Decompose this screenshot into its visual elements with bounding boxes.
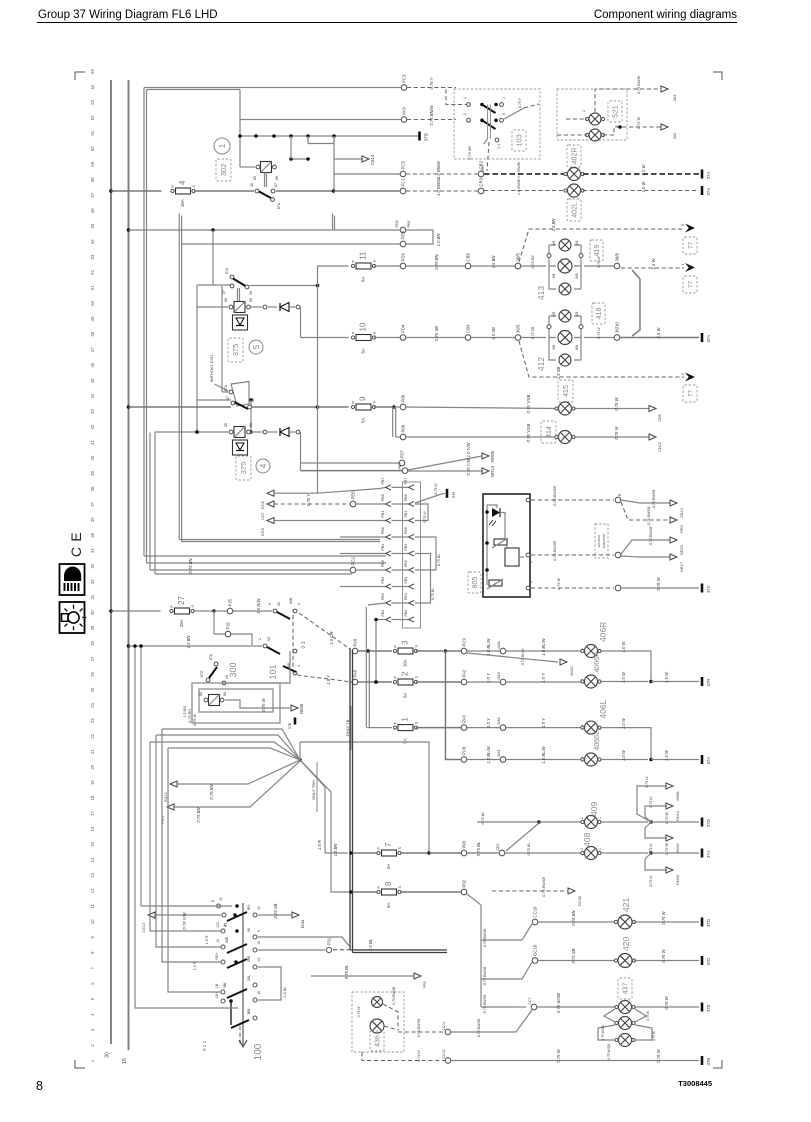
svg-text:1.5 R: 1.5 R bbox=[205, 935, 209, 944]
svg-text:0 1: 0 1 bbox=[301, 641, 307, 648]
svg-text:1.0 R: 1.0 R bbox=[193, 961, 197, 970]
terminal CC7 bbox=[531, 1004, 537, 1010]
svg-text:55: 55 bbox=[90, 223, 95, 228]
svg-text:63: 63 bbox=[90, 99, 95, 104]
svg-text:C: C bbox=[68, 547, 84, 557]
svg-text:CR3: CR3 bbox=[479, 177, 484, 186]
unit 805 inner block bbox=[505, 548, 519, 566]
svg-text:0.75 W: 0.75 W bbox=[645, 776, 649, 788]
fuse 4 10A bbox=[171, 180, 196, 207]
resistor R1 bbox=[494, 539, 507, 545]
wire 412 out bbox=[584, 337, 614, 339]
svg-text:37A: 37A bbox=[706, 757, 711, 765]
svg-text:CC01: CC01 bbox=[442, 1022, 446, 1031]
svg-text:CG7: CG7 bbox=[261, 512, 265, 520]
svg-text:1.5 R: 1.5 R bbox=[317, 840, 322, 850]
svg-text:0.75 BN/SB: 0.75 BN/SB bbox=[553, 541, 557, 561]
without DRL leader bbox=[215, 384, 229, 391]
wire loop horizontal y574 bbox=[155, 573, 352, 575]
lamp 402R label bbox=[567, 145, 581, 167]
svg-text:1.0 W: 1.0 W bbox=[621, 640, 626, 652]
switch 101 travel dashes bbox=[292, 615, 294, 668]
svg-text:16: 16 bbox=[90, 826, 95, 831]
wire 0.75 Y dashed bbox=[407, 87, 456, 89]
lamp 414 bbox=[555, 431, 575, 444]
wire relay 375-5 output bbox=[250, 285, 318, 287]
svg-text:86: 86 bbox=[224, 298, 228, 302]
lamp 436a bbox=[372, 997, 383, 1008]
wire 0.75 SB bbox=[538, 960, 616, 962]
wire loop vertical D bbox=[181, 216, 183, 542]
wire dashed 1.5 SB to connector 77-2 bbox=[519, 341, 684, 377]
wires to NR23 NR17 bbox=[621, 540, 670, 554]
svg-text:1: 1 bbox=[502, 97, 506, 99]
svg-text:0.75 W: 0.75 W bbox=[193, 714, 197, 726]
wire CE2 diagonal bbox=[506, 823, 539, 851]
fuse 1 5A bbox=[393, 717, 418, 744]
wire dashed 1.5 BN to connector 77-6 bbox=[519, 229, 684, 262]
svg-text:0.75 BN/SB: 0.75 BN/SB bbox=[483, 966, 487, 985]
wire jog 36/8 to 36/10 bbox=[632, 270, 640, 336]
svg-text:8: 8 bbox=[36, 1079, 43, 1093]
svg-text:WITHOUT: WITHOUT bbox=[597, 534, 601, 547]
svg-text:39: 39 bbox=[90, 471, 95, 476]
wire fan ray 3 bbox=[150, 742, 300, 760]
svg-text:DN14: DN14 bbox=[676, 811, 680, 821]
svg-text:1.5 BN: 1.5 BN bbox=[333, 843, 338, 857]
svg-text:36: 36 bbox=[90, 517, 95, 522]
svg-text:0.75 W: 0.75 W bbox=[664, 995, 669, 1009]
wire loop vertical B bbox=[146, 90, 148, 564]
svg-text:PD4: PD4 bbox=[401, 324, 406, 333]
svg-text:OA9: OA9 bbox=[497, 672, 501, 679]
svg-text:38: 38 bbox=[90, 486, 95, 491]
svg-text:CG13: CG13 bbox=[142, 923, 146, 933]
svg-text:0.75 W: 0.75 W bbox=[656, 1048, 661, 1062]
connector CE13 bbox=[670, 500, 677, 506]
svg-text:46: 46 bbox=[90, 362, 95, 367]
relay 375-4 suppression diode bbox=[233, 440, 248, 455]
svg-text:1: 1 bbox=[463, 97, 467, 99]
svg-text:1.5 W: 1.5 W bbox=[651, 257, 656, 269]
svg-text:3BL: 3BL bbox=[223, 982, 227, 988]
wire 1.5 OR dashed bbox=[299, 613, 350, 649]
svg-text:0.75 BN: 0.75 BN bbox=[531, 255, 535, 268]
svg-text:65: 65 bbox=[90, 69, 95, 74]
terminal CC18 bbox=[532, 944, 538, 963]
relay 300 blade bbox=[209, 667, 217, 678]
svg-text:PC3: PC3 bbox=[402, 74, 407, 83]
terminal 36/8 bbox=[614, 253, 620, 269]
svg-text:1.0 BN/W: 1.0 BN/W bbox=[436, 160, 441, 179]
without DRL contact shape bbox=[231, 382, 249, 407]
svg-text:375: 375 bbox=[239, 462, 248, 475]
relay 302 pin 85 bbox=[256, 165, 260, 169]
svg-text:28: 28 bbox=[90, 641, 95, 646]
connector 77 label b bbox=[683, 276, 697, 293]
control unit 805 label bbox=[468, 572, 481, 593]
svg-text:0.75 W: 0.75 W bbox=[637, 117, 641, 129]
terminal 37A row 408 bbox=[702, 849, 711, 859]
wire fan ray 1 bbox=[162, 729, 300, 760]
wire 36/3 to 412 bbox=[521, 337, 546, 339]
svg-text:1.0 Y: 1.0 Y bbox=[486, 672, 491, 683]
wire dashed 0.75 W to X02 bbox=[603, 127, 661, 135]
svg-text:1.0 BL/W: 1.0 BL/W bbox=[486, 637, 491, 655]
svg-text:1: 1 bbox=[297, 665, 301, 667]
junction bus 30 row 27 bbox=[109, 609, 113, 613]
svg-text:12: 12 bbox=[90, 888, 95, 893]
wire fuse27 feed bbox=[111, 610, 161, 612]
double drop x333 bbox=[332, 214, 334, 230]
relay 300 contact 30 bbox=[222, 681, 226, 685]
wire loop vertical x155 bbox=[154, 432, 156, 574]
svg-text:5A: 5A bbox=[361, 277, 366, 282]
wire PA9 to fuse2 bbox=[358, 681, 392, 683]
branch to DN03 bbox=[645, 853, 666, 870]
relay 300 coil bbox=[209, 695, 220, 706]
relay 302 contact 30 bbox=[255, 189, 259, 193]
junction PJ5 bbox=[212, 609, 216, 613]
wire 409 out bbox=[600, 821, 648, 823]
svg-text:NR23: NR23 bbox=[680, 545, 684, 555]
wire dashed 1.5 W to connector 77-1 bbox=[621, 267, 684, 269]
wire 1.0 Y bbox=[467, 681, 500, 683]
lamp 409 bbox=[581, 816, 601, 829]
switch 100 contact row 13 bbox=[221, 945, 225, 949]
wire row 57 left bbox=[111, 190, 162, 192]
fuse 8 5A bbox=[377, 881, 402, 908]
switch 101 contact S6 bbox=[263, 644, 267, 648]
svg-text:OA6: OA6 bbox=[497, 717, 501, 724]
svg-text:0.75 W/SB: 0.75 W/SB bbox=[601, 1025, 605, 1041]
relay 375-4 pin 85 bbox=[229, 430, 233, 434]
svg-text:X03: X03 bbox=[673, 95, 677, 102]
svg-text:300: 300 bbox=[228, 662, 238, 677]
lamp cluster 413 bbox=[547, 245, 583, 289]
svg-text:PB9: PB9 bbox=[381, 577, 385, 584]
icon headlamp low beam bbox=[60, 564, 85, 595]
svg-text:CC7: CC7 bbox=[528, 997, 532, 1004]
svg-text:418: 418 bbox=[596, 308, 603, 320]
terminal CB5 bbox=[465, 253, 471, 269]
relay 375-5 suppression diode bbox=[233, 315, 248, 330]
svg-text:85: 85 bbox=[224, 423, 228, 427]
svg-text:B/B: B/B bbox=[575, 345, 579, 350]
wire loop horizontal D bbox=[182, 541, 380, 543]
wire loop vertical x141 bbox=[140, 646, 142, 906]
svg-text:33: 33 bbox=[90, 563, 95, 568]
junction bus 15 row 55 bbox=[127, 228, 131, 232]
wire 402L feed dashed bbox=[484, 190, 566, 192]
svg-text:2: 2 bbox=[580, 817, 584, 819]
svg-text:2.5 W: 2.5 W bbox=[656, 326, 661, 339]
terminal PC8 bbox=[461, 746, 467, 762]
terminal P02 bbox=[461, 879, 467, 895]
svg-text:1.5 SB: 1.5 SB bbox=[556, 367, 561, 380]
terminal 37A row 412 bbox=[702, 333, 711, 343]
relay 375-5 contact 87A bbox=[230, 275, 234, 279]
control unit 805 box bbox=[483, 494, 530, 597]
lamp 415 bbox=[555, 402, 575, 415]
lamp 402L bbox=[564, 184, 584, 197]
relay 375-5 diode wires bbox=[251, 306, 262, 308]
lamp 436b bbox=[370, 1019, 384, 1033]
svg-text:62: 62 bbox=[90, 115, 95, 120]
wire loop horizontal C bbox=[179, 539, 380, 541]
wire S6 to bus bbox=[258, 937, 349, 946]
svg-text:OA1: OA1 bbox=[497, 749, 501, 756]
lamp cluster 406R bbox=[581, 645, 601, 658]
wire loop to fuse7 out bbox=[300, 742, 429, 853]
svg-text:0 1 2: 0 1 2 bbox=[202, 1041, 207, 1051]
wire dashed 436 to C02 bbox=[362, 1052, 445, 1061]
junction bus 15 row S6 bbox=[127, 644, 131, 648]
svg-text:1.0 Y: 1.0 Y bbox=[541, 672, 546, 683]
svg-text:0.75 BN/W: 0.75 BN/W bbox=[637, 75, 641, 94]
connector CG7 bbox=[267, 501, 274, 507]
svg-text:302: 302 bbox=[219, 164, 228, 177]
switch 101 contact S6B-3 bbox=[293, 609, 297, 613]
branch to DN14 bbox=[645, 806, 666, 822]
svg-text:2: 2 bbox=[529, 561, 533, 563]
svg-text:27: 27 bbox=[177, 596, 186, 605]
svg-text:18: 18 bbox=[90, 795, 95, 800]
wire U jog bbox=[308, 136, 334, 144]
lamp 414 label bbox=[541, 421, 556, 443]
svg-text:1.0 BN: 1.0 BN bbox=[436, 233, 441, 247]
svg-text:406R: 406R bbox=[598, 622, 608, 642]
svg-text:1.5 R/W: 1.5 R/W bbox=[256, 597, 261, 613]
svg-text:0.75 BN/SB: 0.75 BN/SB bbox=[417, 1018, 421, 1037]
svg-text:64: 64 bbox=[90, 84, 95, 89]
svg-text:14: 14 bbox=[257, 958, 261, 962]
wire row 61 to PA3 bbox=[240, 119, 401, 121]
svg-text:50: 50 bbox=[90, 300, 95, 305]
wire 1.5 BN bbox=[471, 265, 515, 267]
connector CN5 bbox=[649, 406, 656, 412]
svg-text:30: 30 bbox=[90, 610, 95, 615]
connector PB pin columns bbox=[381, 478, 414, 622]
svg-text:2: 2 bbox=[582, 110, 586, 112]
terminal PJ5 bbox=[227, 598, 233, 613]
wire row 409 bbox=[477, 821, 537, 823]
svg-text:S8L: S8L bbox=[247, 975, 251, 981]
svg-text:53: 53 bbox=[90, 254, 95, 259]
wire dashed pin1 to 37C bbox=[531, 587, 614, 589]
relay 302 coil bbox=[261, 162, 272, 173]
svg-text:T3008445: T3008445 bbox=[678, 1079, 712, 1088]
corner mark bottom-left bbox=[75, 1060, 85, 1068]
svg-text:CC19: CC19 bbox=[533, 906, 538, 918]
svg-text:30: 30 bbox=[250, 183, 254, 187]
switch 100 left feeds bbox=[150, 742, 221, 931]
svg-text:3: 3 bbox=[401, 640, 410, 645]
svg-text:86: 86 bbox=[249, 423, 253, 427]
svg-text:1.0 W: 1.0 W bbox=[641, 163, 646, 175]
wire 1.5 Y dashed bbox=[297, 675, 352, 682]
svg-text:0.75 BN/SB: 0.75 BN/SB bbox=[542, 877, 546, 897]
svg-text:37A: 37A bbox=[706, 171, 711, 179]
svg-text:S6: S6 bbox=[247, 928, 251, 932]
wire 0.75 Y dashed bbox=[274, 503, 350, 505]
connector PR5 bbox=[167, 804, 174, 810]
terminal 3TB bbox=[420, 132, 429, 142]
svg-text:1B: 1B bbox=[215, 983, 219, 988]
svg-text:PK8: PK8 bbox=[407, 221, 411, 228]
fuse 7 5A bbox=[377, 842, 402, 869]
wire 0.75 W bbox=[651, 821, 699, 823]
connector PB body box bbox=[403, 482, 421, 628]
wire 0.75 Y/SB to 415 bbox=[406, 407, 556, 409]
svg-text:NR17: NR17 bbox=[680, 562, 684, 572]
relay 375-5 contact 87 bbox=[230, 284, 234, 288]
fuse 10 5A bbox=[351, 322, 376, 353]
unit 805 link wires bbox=[487, 505, 497, 508]
svg-text:17: 17 bbox=[90, 811, 95, 816]
svg-text:34: 34 bbox=[90, 548, 95, 553]
svg-text:41: 41 bbox=[90, 440, 95, 445]
svg-text:1/B: 1/B bbox=[575, 312, 579, 317]
svg-text:10A: 10A bbox=[180, 199, 185, 207]
svg-text:CB5: CB5 bbox=[466, 253, 471, 262]
terminal 37A row 402R bbox=[702, 170, 711, 180]
lamp cluster 406L bbox=[581, 721, 601, 734]
terminal PD4 bbox=[400, 324, 406, 340]
relay 300 contact 87G bbox=[206, 678, 210, 682]
relay 300 routing box inner bbox=[199, 689, 273, 712]
relay 300 routing box outer bbox=[192, 683, 280, 723]
svg-text:2: 2 bbox=[580, 848, 584, 850]
svg-text:1.0 BL/W: 1.0 BL/W bbox=[541, 637, 546, 655]
svg-text:EC6: EC6 bbox=[261, 501, 265, 508]
header rule bbox=[37, 22, 737, 24]
svg-text:15: 15 bbox=[122, 1058, 128, 1064]
lamp 521a bbox=[585, 113, 604, 125]
svg-text:54: 54 bbox=[90, 239, 95, 244]
terminal R bbox=[615, 497, 621, 503]
svg-text:0.75 BN: 0.75 BN bbox=[188, 557, 193, 573]
svg-text:0.75 W: 0.75 W bbox=[649, 875, 653, 887]
relay 302 pin 86 bbox=[273, 165, 277, 169]
wire EG5 row bbox=[274, 520, 385, 522]
wire loop horizontal B bbox=[147, 562, 387, 564]
svg-text:0.75 W: 0.75 W bbox=[665, 843, 669, 855]
svg-text:30: 30 bbox=[225, 675, 229, 679]
relay 375-5 pin 86 bbox=[229, 305, 233, 309]
wire loop bottom left bbox=[135, 646, 238, 1008]
lamp 437b bbox=[615, 1017, 635, 1030]
terminal C01 bbox=[445, 1029, 451, 1035]
svg-text:CE13: CE13 bbox=[680, 508, 684, 518]
svg-text:8: 8 bbox=[384, 881, 393, 886]
svg-text:N056: N056 bbox=[676, 791, 680, 800]
corner mark top-left bbox=[75, 72, 85, 80]
svg-text:0.75 W: 0.75 W bbox=[434, 483, 438, 495]
wire to PJ2 bbox=[214, 611, 225, 634]
wire loop vertical A bbox=[143, 88, 145, 557]
connector 77 pin 1 bbox=[681, 263, 695, 272]
wire vertical bbox=[290, 136, 292, 159]
wire drop to PB7 row bbox=[300, 432, 302, 471]
connector PB left feed wires bbox=[340, 536, 385, 538]
switch 101 contact 30 bbox=[273, 609, 277, 613]
wire row 408 bbox=[467, 852, 499, 854]
svg-text:2: 2 bbox=[681, 373, 685, 375]
wire 1.0 BN/W dashed bbox=[406, 190, 478, 192]
svg-text:LD+: LD+ bbox=[215, 992, 219, 998]
terminal OA1 bbox=[500, 757, 506, 763]
svg-text:2: 2 bbox=[401, 671, 410, 676]
connector C614 bbox=[362, 154, 375, 165]
svg-text:PC9: PC9 bbox=[462, 638, 467, 647]
junction fan node bbox=[298, 758, 302, 762]
wire dashed 0.75 SB drop to CR2 bbox=[487, 142, 489, 171]
wire dashed 436 to C01 bbox=[383, 1004, 398, 1030]
terminal CE2 bbox=[499, 850, 505, 856]
svg-text:23: 23 bbox=[90, 718, 95, 723]
relay 375-5 contact 30 bbox=[245, 285, 249, 289]
svg-text:10A: 10A bbox=[403, 659, 408, 667]
svg-text:1.5 BN: 1.5 BN bbox=[186, 635, 191, 649]
junction bus 15 row 42 bbox=[127, 405, 131, 409]
svg-text:37C: 37C bbox=[706, 585, 711, 593]
svg-text:44: 44 bbox=[90, 393, 95, 398]
svg-text:25: 25 bbox=[90, 687, 95, 692]
svg-text:PA9: PA9 bbox=[353, 669, 358, 677]
junction row 42 bbox=[316, 405, 320, 409]
lamp 521b bbox=[585, 129, 604, 141]
svg-text:3/B: 3/B bbox=[552, 345, 556, 350]
svg-text:60: 60 bbox=[90, 146, 95, 151]
svg-text:B/B: B/B bbox=[575, 273, 579, 278]
svg-text:30: 30 bbox=[277, 602, 281, 606]
svg-text:1: 1 bbox=[529, 581, 533, 583]
svg-text:87: 87 bbox=[222, 290, 226, 294]
svg-text:PB1: PB1 bbox=[404, 511, 408, 518]
svg-text:49: 49 bbox=[90, 316, 95, 321]
wire 1.0 BL dashed bbox=[333, 949, 445, 951]
wire 0.75 W row 437 bbox=[634, 1006, 699, 1008]
svg-text:3: 3 bbox=[297, 603, 301, 605]
svg-text:24: 24 bbox=[90, 702, 95, 707]
svg-text:40: 40 bbox=[90, 455, 95, 460]
svg-text:37D: 37D bbox=[706, 958, 711, 966]
wire dashed pin2 bbox=[531, 554, 614, 556]
wire row 57 right bbox=[276, 190, 332, 192]
svg-text:4: 4 bbox=[178, 180, 187, 185]
wire loop PK8-PE8 bbox=[406, 230, 433, 244]
svg-text:59: 59 bbox=[90, 161, 95, 166]
relay 375-5 pin 85 bbox=[247, 305, 251, 309]
svg-text:PC2: PC2 bbox=[351, 557, 356, 566]
connector N023 bbox=[666, 835, 673, 841]
svg-text:P31: P31 bbox=[327, 937, 332, 945]
svg-text:PE8: PE8 bbox=[401, 231, 406, 240]
wire 0.75 W bbox=[621, 587, 699, 589]
svg-text:EDM: EDM bbox=[301, 920, 305, 928]
svg-text:85: 85 bbox=[249, 298, 253, 302]
terminal 37B bbox=[702, 1056, 711, 1066]
svg-text:S6: S6 bbox=[267, 637, 271, 641]
switch 100 contact row 1B bbox=[221, 990, 225, 994]
svg-text:100: 100 bbox=[253, 1043, 264, 1060]
wire 1.0 BL/W bbox=[467, 759, 500, 761]
svg-text:87A: 87A bbox=[277, 202, 281, 209]
svg-text:47: 47 bbox=[90, 347, 95, 352]
wire riser PC8 bbox=[446, 651, 462, 760]
relay 302 frame bottom bbox=[240, 166, 255, 168]
